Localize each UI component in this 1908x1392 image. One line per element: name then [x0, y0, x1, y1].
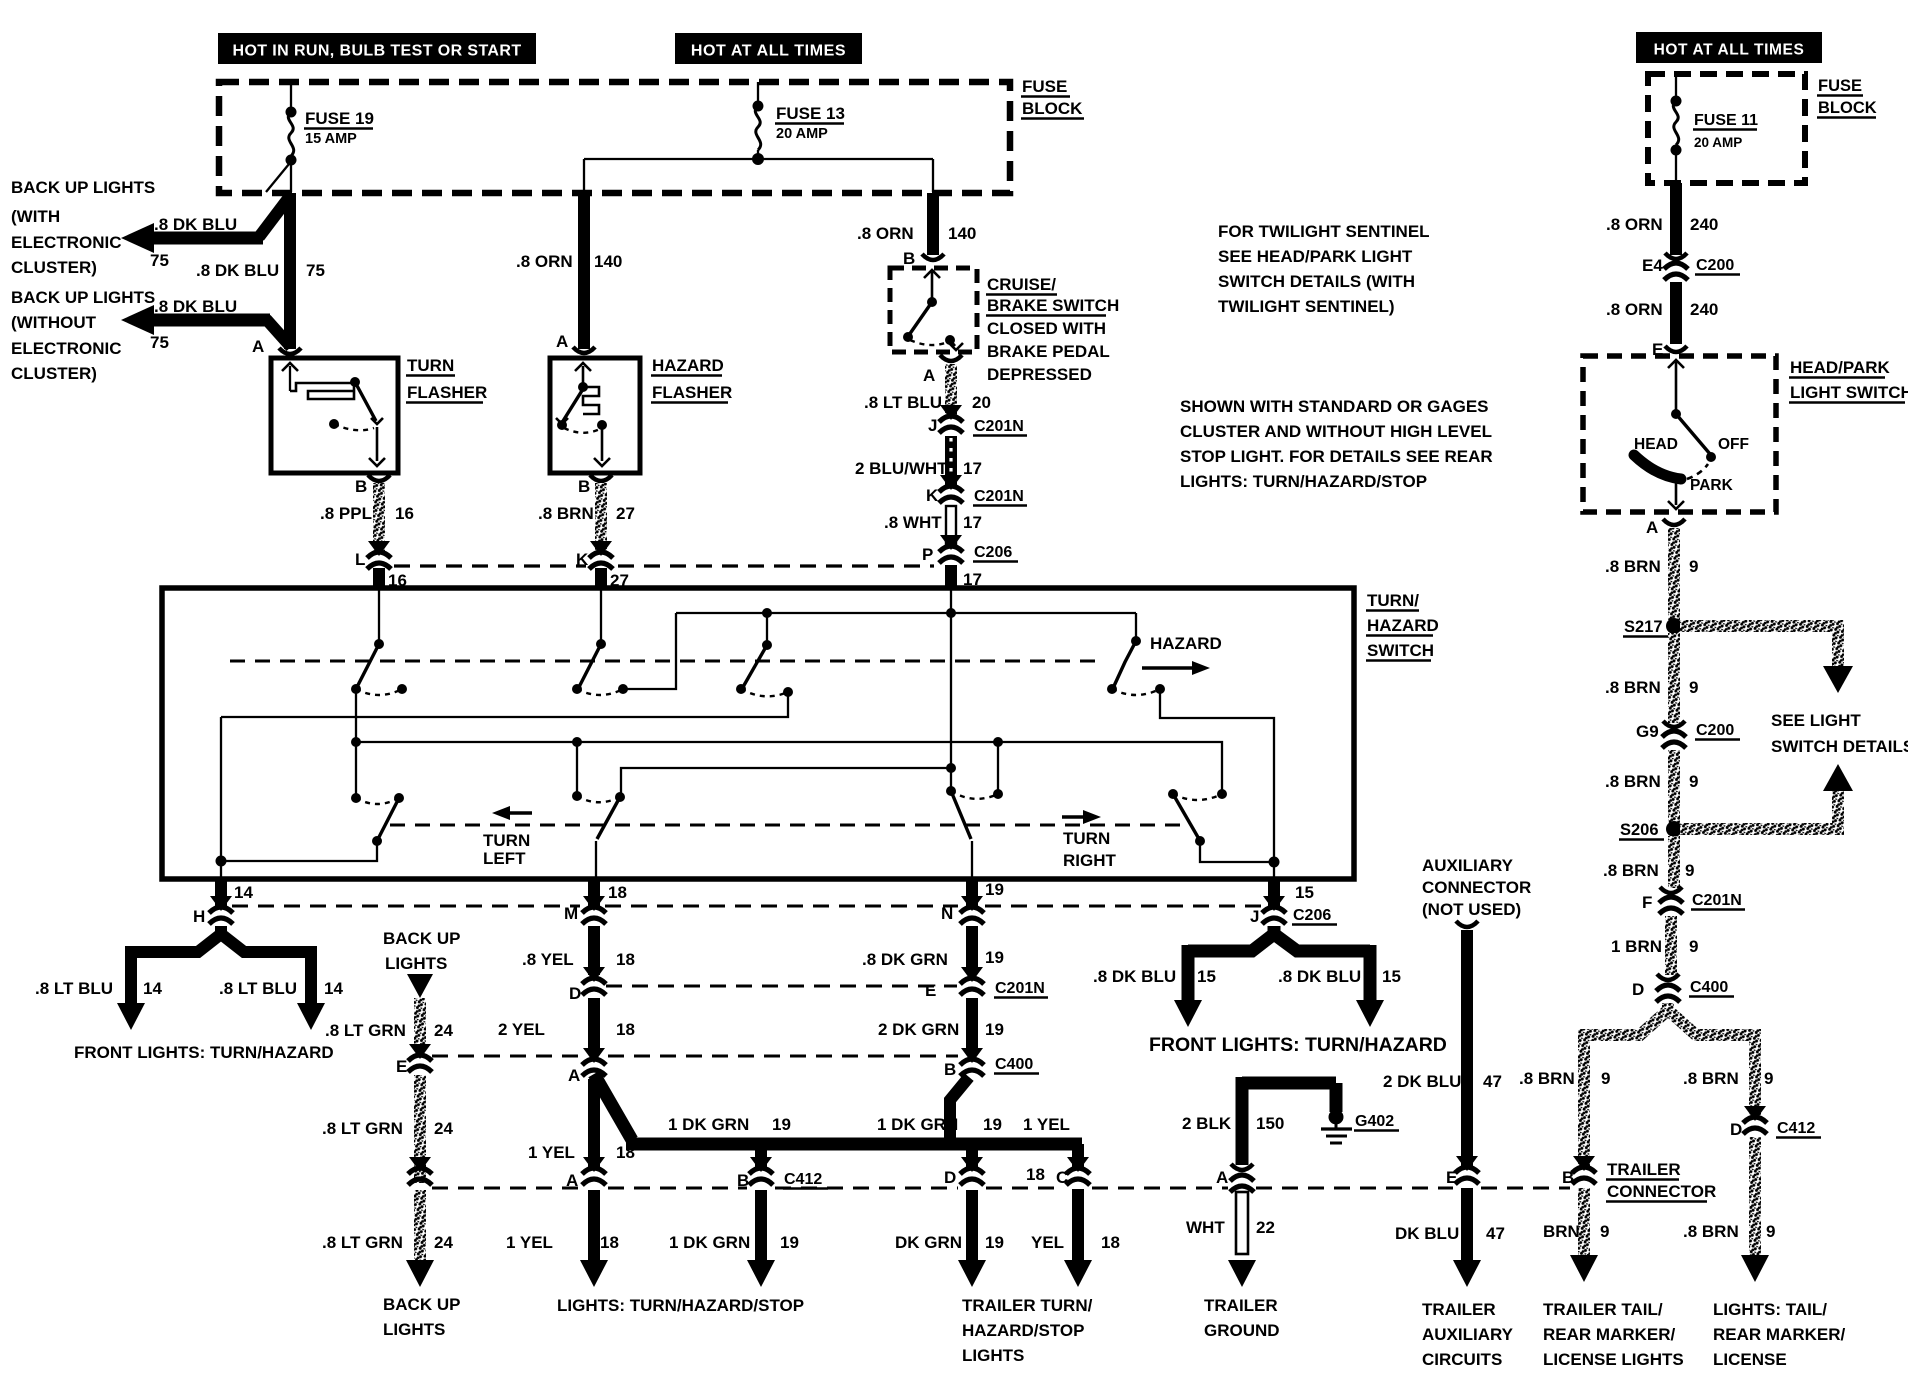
wire 27 into switch	[595, 568, 607, 590]
svg-text:.8 DK BLU: .8 DK BLU	[1093, 967, 1176, 986]
svg-text:M: M	[564, 904, 578, 923]
switch4L throw arc	[356, 798, 399, 804]
svg-text:FOR TWILIGHT SENTINEL: FOR TWILIGHT SENTINEL	[1218, 222, 1430, 241]
svg-text:STOP LIGHT. FOR DETAILS SEE RE: STOP LIGHT. FOR DETAILS SEE REAR	[1180, 447, 1493, 466]
svg-text:FRONT LIGHTS: TURN/HAZARD: FRONT LIGHTS: TURN/HAZARD	[1149, 1034, 1447, 1056]
switch7 throw arc	[1173, 794, 1222, 800]
svg-text:2 DK BLU: 2 DK BLU	[1383, 1072, 1461, 1091]
svg-text:24: 24	[434, 1119, 453, 1138]
wire switch6 blade to wire 19	[971, 841, 973, 879]
svg-text:1 YEL: 1 YEL	[506, 1233, 553, 1252]
wire .8 YEL 18	[588, 926, 600, 975]
wire .8 DK BLU 75 arrow to back up lights (without cluster)	[266, 319, 291, 347]
svg-text:22: 22	[1256, 1218, 1275, 1237]
svg-text:HAZARD/STOP: HAZARD/STOP	[962, 1321, 1084, 1340]
wire 2 DK GRN 19	[966, 998, 978, 1053]
svg-text:D: D	[944, 1168, 956, 1187]
svg-text:18: 18	[608, 883, 627, 902]
svg-text:LIGHT SWITCH: LIGHT SWITCH	[1790, 383, 1908, 402]
svg-text:C200: C200	[1696, 257, 1734, 274]
svg-text:18: 18	[1101, 1233, 1120, 1252]
svg-text:TRAILER TURN/: TRAILER TURN/	[962, 1296, 1093, 1315]
svg-text:BACK UP: BACK UP	[383, 929, 460, 948]
svg-text:SWITCH DETAILS: SWITCH DETAILS	[1771, 737, 1908, 756]
svg-text:TURN: TURN	[1063, 829, 1110, 848]
hazard switch throw arc	[1112, 689, 1160, 695]
wire right bus (y768)	[621, 768, 951, 795]
svg-text:B: B	[944, 1060, 956, 1079]
svg-text:15 AMP: 15 AMP	[305, 131, 357, 147]
svg-text:REAR MARKER/: REAR MARKER/	[1713, 1325, 1846, 1344]
svg-text:.8 LT GRN: .8 LT GRN	[322, 1233, 403, 1252]
svg-text:.8 LT BLU: .8 LT BLU	[35, 979, 113, 998]
svg-text:.8 BRN: .8 BRN	[1605, 557, 1661, 576]
svg-text:18: 18	[600, 1233, 619, 1252]
svg-text:SWITCH DETAILS (WITH: SWITCH DETAILS (WITH	[1218, 272, 1415, 291]
svg-text:PARK: PARK	[1690, 477, 1734, 494]
hazard flasher input arrow	[582, 366, 585, 386]
svg-text:.8 BRN: .8 BRN	[1605, 772, 1661, 791]
svg-text:9: 9	[1689, 678, 1698, 697]
node switch3 lower contacts	[736, 684, 746, 694]
svg-text:TWILIGHT SENTINEL): TWILIGHT SENTINEL)	[1218, 297, 1395, 316]
svg-text:1 DK GRN: 1 DK GRN	[669, 1233, 750, 1252]
svg-text:TURN/: TURN/	[1367, 591, 1419, 610]
wire switch2 arc to hazard bus	[623, 613, 676, 689]
node switch4L contacts	[351, 793, 361, 803]
node fuse 19 top	[286, 107, 297, 118]
svg-text:K: K	[926, 486, 939, 505]
svg-text:ELECTRONIC: ELECTRONIC	[11, 339, 122, 358]
svg-text:B: B	[578, 477, 590, 496]
wire switch7 blade to wire 15	[1200, 841, 1274, 862]
switch dashed row (lower)	[390, 824, 1185, 827]
svg-text:(NOT USED): (NOT USED)	[1422, 900, 1521, 919]
node switch6 contacts	[946, 786, 956, 796]
switch contact 1 feed wire	[378, 590, 380, 644]
wire WHT 22 (hollow)	[1236, 1192, 1248, 1254]
svg-text:16: 16	[395, 504, 414, 523]
svg-text:E: E	[396, 1057, 407, 1076]
wire 14 out of switch	[215, 879, 227, 908]
svg-text:15: 15	[1295, 883, 1314, 902]
svg-text:1 BRN: 1 BRN	[1611, 937, 1662, 956]
head/park HEAD wiper crescent	[1634, 455, 1681, 479]
wire fuse 11 feed	[1675, 74, 1677, 101]
wire .8 BRN 9 (S217 to C200)	[1668, 633, 1680, 723]
svg-text:N: N	[941, 904, 953, 923]
node switch5M contacts	[572, 791, 582, 801]
node switch7 contacts	[1168, 789, 1178, 799]
turn flasher box	[271, 358, 398, 473]
switch1 throw arc	[356, 689, 402, 695]
switch6 throw arc	[951, 791, 998, 799]
svg-text:J: J	[928, 416, 937, 435]
svg-text:G402: G402	[1355, 1113, 1394, 1130]
hazard flasher fixed contact	[557, 420, 567, 430]
svg-text:FUSE 19: FUSE 19	[305, 109, 374, 128]
wire .8 DK GRN 19	[966, 926, 978, 972]
switch dashed row (upper)	[230, 660, 1105, 663]
wire .8 ORN 140 fuse 13 to hazard flasher	[578, 193, 590, 349]
svg-text:A: A	[1646, 518, 1658, 537]
back up lights feed arrow	[407, 974, 433, 998]
svg-text:OFF: OFF	[1718, 436, 1749, 453]
svg-text:47: 47	[1486, 1224, 1505, 1243]
wire .8 WHT 17 (hollow)	[946, 506, 956, 546]
svg-text:TURN: TURN	[407, 356, 454, 375]
switch5M blade	[597, 797, 620, 839]
svg-text:75: 75	[306, 261, 325, 280]
cruise switch output arrow	[950, 340, 955, 346]
node fuse 19 bottom	[286, 155, 297, 166]
svg-text:9: 9	[1766, 1222, 1775, 1241]
wire 15 out of switch	[1268, 879, 1280, 908]
svg-text:9: 9	[1764, 1069, 1773, 1088]
svg-text:CLOSED WITH: CLOSED WITH	[987, 319, 1106, 338]
wire .8 BRN 9 (S206 to C201N)	[1668, 836, 1680, 888]
svg-text:LICENSE: LICENSE	[1713, 1350, 1787, 1369]
svg-text:B: B	[355, 477, 367, 496]
cruise brake switch box	[890, 268, 977, 352]
svg-text:47: 47	[1483, 1072, 1502, 1091]
wire switch3 feed	[766, 613, 768, 645]
svg-text:SHOWN WITH STANDARD OR GAGES: SHOWN WITH STANDARD OR GAGES	[1180, 397, 1489, 416]
wire YEL 18 to trailer lights	[1072, 1189, 1084, 1262]
wire switch1 to crossover bus	[355, 689, 357, 798]
svg-text:FLASHER: FLASHER	[652, 383, 732, 402]
power label HOT IN RUN, BULB TEST OR START	[218, 33, 536, 64]
wire split D C400 to trailer columns	[1590, 1003, 1668, 1035]
hazard flasher box	[550, 358, 640, 473]
wire 2 BLU/WHT 17	[945, 436, 957, 487]
switch4L blade	[377, 800, 398, 841]
svg-text:LICENSE LIGHTS: LICENSE LIGHTS	[1543, 1350, 1684, 1369]
switch2 throw arc	[577, 689, 623, 695]
svg-text:REAR MARKER/: REAR MARKER/	[1543, 1325, 1676, 1344]
wire switch3 arc to left-front bus	[221, 692, 788, 717]
fuse F13 element	[755, 106, 760, 150]
svg-text:TRAILER: TRAILER	[1204, 1296, 1278, 1315]
svg-text:.8 DK BLU: .8 DK BLU	[154, 297, 237, 316]
wire 1 YEL 18 (to lights)	[588, 1190, 600, 1262]
svg-text:.8 PPL: .8 PPL	[320, 504, 372, 523]
hazard switch blade	[1114, 641, 1136, 686]
svg-text:B: B	[903, 249, 915, 268]
turn flasher blade	[355, 382, 376, 421]
wire fuse 13 feed	[757, 82, 759, 106]
svg-text:E: E	[925, 981, 936, 1000]
wire 15 exit	[1273, 862, 1275, 879]
wire switch5M blade to wire 18	[595, 841, 597, 879]
ground G402	[1330, 1083, 1343, 1112]
wire fuse 19 feed	[290, 82, 292, 112]
wire 1 DK GRN bus	[626, 1138, 1082, 1151]
svg-text:.8 ORN: .8 ORN	[857, 224, 914, 243]
svg-text:S206: S206	[1620, 821, 1659, 839]
svg-text:J: J	[1250, 907, 1259, 926]
wire hazard bus drop to hazard switch	[1135, 613, 1137, 641]
svg-text:(WITHOUT: (WITHOUT	[11, 313, 97, 332]
svg-text:1 YEL: 1 YEL	[528, 1143, 575, 1162]
svg-text:BLOCK: BLOCK	[1022, 99, 1083, 118]
svg-text:CLUSTER): CLUSTER)	[11, 258, 97, 277]
switch1 blade	[357, 644, 379, 687]
svg-text:140: 140	[948, 224, 976, 243]
svg-text:.8 LT BLU: .8 LT BLU	[219, 979, 297, 998]
node left-front bus corner	[216, 856, 227, 867]
svg-text:BACK UP LIGHTS: BACK UP LIGHTS	[11, 178, 155, 197]
svg-text:19: 19	[780, 1233, 799, 1252]
svg-text:75: 75	[150, 333, 169, 352]
svg-text:TURN: TURN	[483, 831, 530, 850]
wire drop to connector B C412	[755, 1144, 767, 1168]
svg-text:75: 75	[150, 251, 169, 270]
svg-text:BLOCK: BLOCK	[1818, 99, 1877, 117]
wire 1 YEL 18 (A to A)	[588, 1079, 600, 1169]
svg-text:D: D	[569, 984, 581, 1003]
wire S206 branch to light switch details	[1680, 823, 1838, 835]
svg-text:.8 BRN: .8 BRN	[1603, 861, 1659, 880]
wire .8 LT GRN 24 (seg2)	[414, 1075, 426, 1183]
svg-text:BACK UP: BACK UP	[383, 1295, 460, 1314]
svg-text:C200: C200	[1696, 722, 1734, 739]
wire DK GRN 19 to trailer lights	[966, 1190, 978, 1262]
wire fuse 13 to branches	[757, 150, 759, 159]
svg-text:C412: C412	[784, 1171, 822, 1188]
svg-text:YEL: YEL	[1031, 1233, 1064, 1252]
svg-text:HEAD/PARK: HEAD/PARK	[1790, 358, 1891, 377]
svg-text:FUSE: FUSE	[1818, 77, 1862, 95]
svg-text:C201N: C201N	[1692, 892, 1742, 909]
svg-text:A: A	[556, 332, 568, 351]
turn flasher heater element	[290, 383, 354, 399]
switch2 blade	[579, 644, 601, 687]
head/park light switch box	[1583, 356, 1776, 512]
svg-text:.8 BRN: .8 BRN	[1519, 1069, 1575, 1088]
svg-text:15: 15	[1197, 967, 1216, 986]
head/park input arrow	[1675, 362, 1678, 413]
svg-text:BRN: BRN	[1543, 1222, 1580, 1241]
node switch7 blade end	[1195, 836, 1205, 846]
wire .8 BRN 9 to tail lights	[1749, 1137, 1761, 1255]
svg-text:HAZARD: HAZARD	[1150, 634, 1222, 653]
svg-text:20 AMP: 20 AMP	[1694, 135, 1742, 150]
svg-text:HOT AT ALL TIMES: HOT AT ALL TIMES	[1654, 42, 1805, 59]
svg-text:.8 ORN: .8 ORN	[1606, 215, 1663, 234]
svg-text:E4: E4	[1642, 256, 1663, 275]
node switch4L blade end	[372, 836, 382, 846]
svg-text:C206: C206	[1293, 907, 1331, 924]
svg-text:HOT IN RUN, BULB TEST OR START: HOT IN RUN, BULB TEST OR START	[232, 43, 521, 60]
svg-text:14: 14	[143, 979, 162, 998]
svg-text:FUSE: FUSE	[1022, 77, 1067, 96]
svg-text:D: D	[1730, 1120, 1742, 1139]
svg-text:.8 YEL: .8 YEL	[522, 950, 574, 969]
wire 16 into switch	[373, 568, 385, 590]
svg-text:FUSE 13: FUSE 13	[776, 104, 845, 123]
svg-text:HOT AT ALL TIMES: HOT AT ALL TIMES	[691, 43, 846, 60]
svg-text:9: 9	[1600, 1222, 1609, 1241]
svg-text:GROUND: GROUND	[1204, 1321, 1280, 1340]
svg-text:17: 17	[963, 459, 982, 478]
svg-text:HAZARD: HAZARD	[1367, 616, 1439, 635]
svg-text:24: 24	[434, 1021, 453, 1040]
svg-text:D: D	[1632, 980, 1644, 999]
hazard flasher throw arc	[564, 428, 600, 433]
wire 17 vertical in switch	[950, 590, 952, 791]
svg-text:HEAD: HEAD	[1634, 436, 1678, 453]
wire 2 DK BLU 47	[1461, 930, 1473, 1168]
svg-text:TRAILER: TRAILER	[1422, 1300, 1496, 1319]
head/park pivot node	[1671, 409, 1681, 419]
wire crossover drop to switch5M right contact	[997, 742, 999, 794]
svg-text:1 DK GRN: 1 DK GRN	[668, 1115, 749, 1134]
svg-text:CLUSTER AND WITHOUT HIGH LEVEL: CLUSTER AND WITHOUT HIGH LEVEL	[1180, 422, 1492, 441]
connector row H M N J dashed link	[232, 904, 580, 907]
turn flasher contact node	[350, 377, 360, 387]
svg-text:.8 DK BLU: .8 DK BLU	[1278, 967, 1361, 986]
svg-text:9: 9	[1689, 772, 1698, 791]
svg-text:LIGHTS: LIGHTS	[383, 1320, 445, 1339]
svg-text:19: 19	[985, 1020, 1004, 1039]
svg-text:S217: S217	[1624, 618, 1663, 636]
svg-text:17: 17	[963, 513, 982, 532]
wire S217 branch to light switch details	[1680, 620, 1838, 632]
svg-text:LEFT: LEFT	[483, 849, 526, 868]
node switch1 upper	[374, 639, 384, 649]
svg-text:C412: C412	[1777, 1120, 1815, 1137]
svg-text:.8 ORN: .8 ORN	[1606, 300, 1663, 319]
wire fuse 19 out (in block)	[290, 160, 292, 192]
wire .8 BRN 27 hazard flasher to C206	[595, 483, 607, 551]
head/park blade	[1676, 414, 1710, 454]
svg-text:.8 LT GRN: .8 LT GRN	[322, 1119, 403, 1138]
svg-text:15: 15	[1382, 967, 1401, 986]
wire 1 BRN 9 (C201N to C400)	[1665, 916, 1677, 975]
svg-text:.8 DK GRN: .8 DK GRN	[862, 950, 948, 969]
svg-text:CIRCUITS: CIRCUITS	[1422, 1350, 1502, 1369]
svg-text:ELECTRONIC: ELECTRONIC	[11, 233, 122, 252]
svg-text:9: 9	[1689, 557, 1698, 576]
turn flasher input arrow	[289, 366, 291, 391]
svg-text:BACK UP LIGHTS: BACK UP LIGHTS	[11, 288, 155, 307]
svg-text:CONNECTOR: CONNECTOR	[1422, 878, 1531, 897]
wire .8 DK BLU 75 fuse 19 to turn flasher	[284, 193, 296, 349]
turn flasher throw arc	[334, 424, 374, 430]
svg-text:240: 240	[1690, 300, 1718, 319]
cruise switch input arrow	[931, 272, 934, 301]
terminal auxiliary connector	[1456, 921, 1478, 927]
svg-text:CLUSTER): CLUSTER)	[11, 364, 97, 383]
svg-text:LIGHTS: TAIL/: LIGHTS: TAIL/	[1713, 1300, 1827, 1319]
node switch3 upper	[762, 640, 772, 650]
wire crossover bus (y742)	[356, 742, 1222, 794]
hazard flasher blade	[563, 389, 583, 421]
svg-text:FUSE 11: FUSE 11	[1694, 112, 1758, 129]
wire .8 ORN 240 (fuse 11 to C200)	[1670, 183, 1682, 255]
wire hazard arc to wire15 riser	[1160, 689, 1274, 862]
svg-text:27: 27	[616, 504, 635, 523]
svg-text:A: A	[568, 1066, 580, 1085]
svg-text:.8 LT BLU: .8 LT BLU	[864, 393, 942, 412]
wire .8 ORN 240 (C200 to switch)	[1670, 282, 1682, 344]
wire .8 PPL 16 turn flasher to C206	[373, 483, 385, 551]
svg-text:C201N: C201N	[995, 980, 1045, 997]
svg-text:2 BLK: 2 BLK	[1182, 1114, 1232, 1133]
wire DK GRN drop to D	[966, 1144, 978, 1168]
svg-text:LIGHTS: LIGHTS	[385, 954, 447, 973]
svg-text:9: 9	[1601, 1069, 1610, 1088]
wire 1 DK GRN branch from A	[594, 1074, 632, 1140]
head/park output arrow	[1675, 481, 1678, 505]
wire H split to front lights	[131, 926, 221, 952]
svg-text:WHT: WHT	[1186, 1218, 1225, 1237]
svg-text:C206: C206	[974, 544, 1012, 561]
svg-text:19: 19	[983, 1115, 1002, 1134]
svg-text:A: A	[252, 337, 264, 356]
node fuse 13 top	[753, 101, 764, 112]
svg-text:FLASHER: FLASHER	[407, 383, 487, 402]
svg-text:G9: G9	[1636, 722, 1659, 741]
svg-text:C400: C400	[995, 1056, 1033, 1073]
svg-text:150: 150	[1256, 1114, 1284, 1133]
svg-text:.8 BRN: .8 BRN	[538, 504, 594, 523]
svg-text:CONNECTOR: CONNECTOR	[1607, 1182, 1716, 1201]
wire 17 into switch	[945, 565, 957, 590]
hazard flasher output arrow	[601, 428, 604, 461]
power label HOT AT ALL TIMES (right)	[1636, 32, 1822, 63]
node hazard switch upper	[1131, 636, 1141, 646]
svg-text:19: 19	[985, 1233, 1004, 1252]
svg-text:.8 DK BLU: .8 DK BLU	[196, 261, 279, 280]
svg-text:BRAKE SWITCH: BRAKE SWITCH	[987, 296, 1119, 315]
svg-text:SEE HEAD/PARK LIGHT: SEE HEAD/PARK LIGHT	[1218, 247, 1413, 266]
fuse F19 element	[288, 112, 293, 156]
svg-text:.8 BRN: .8 BRN	[1683, 1069, 1739, 1088]
svg-text:20: 20	[972, 393, 991, 412]
node switch1 lower contacts	[351, 684, 361, 694]
svg-text:DK BLU: DK BLU	[1395, 1224, 1459, 1243]
wire left-front bus to switch4L blade	[221, 843, 377, 861]
wire .8 LT GRN 24 (seg1)	[414, 998, 426, 1051]
svg-text:LIGHTS: TURN/HAZARD/STOP: LIGHTS: TURN/HAZARD/STOP	[1180, 472, 1427, 491]
svg-text:14: 14	[324, 979, 343, 998]
svg-text:.8 LT GRN: .8 LT GRN	[325, 1021, 406, 1040]
connector row dashed (y1056)	[432, 1054, 580, 1057]
cruise switch contact nodes	[903, 332, 913, 342]
node head/park OFF contact	[1706, 452, 1716, 462]
node crossover junctions	[572, 737, 582, 747]
svg-text:18: 18	[616, 950, 635, 969]
svg-text:C201N: C201N	[974, 418, 1024, 435]
fuse block outline (left)	[219, 82, 1010, 193]
svg-text:1 YEL: 1 YEL	[1023, 1115, 1070, 1134]
fuse F11 element	[1673, 101, 1678, 145]
turn flasher output arrow	[376, 427, 379, 461]
svg-text:(WITH: (WITH	[11, 207, 60, 226]
switch contact 2 feed wire	[600, 590, 602, 644]
svg-text:19: 19	[985, 948, 1004, 967]
wire .8 LT GRN 24 (seg3)	[414, 1190, 426, 1262]
wire 18 out of switch	[588, 879, 600, 908]
svg-text:24: 24	[434, 1233, 453, 1252]
node fuse 11 top	[1671, 96, 1682, 107]
node wire15 junction	[1269, 857, 1280, 868]
svg-text:LIGHTS: TURN/HAZARD/STOP: LIGHTS: TURN/HAZARD/STOP	[557, 1296, 804, 1315]
svg-text:18: 18	[616, 1020, 635, 1039]
head/park throw arc	[1687, 464, 1708, 479]
